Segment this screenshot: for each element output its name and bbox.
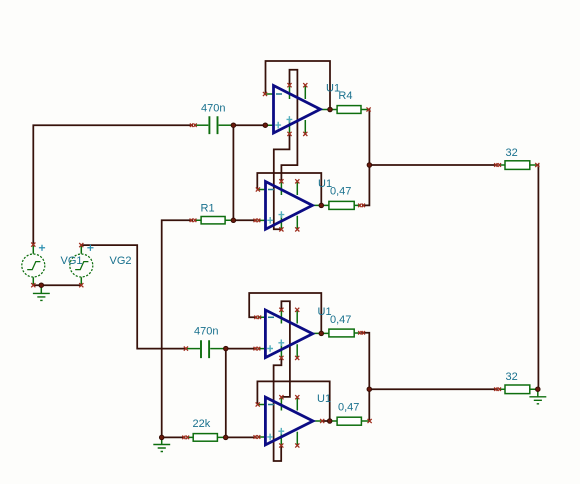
- wire C2 right to opamp3 +in: [226, 348, 257, 350]
- wire feedback opamp3: [249, 293, 321, 333]
- wire node A down to R0,47b: [362, 165, 369, 205]
- svg-text:0,47: 0,47: [338, 402, 359, 414]
- op-amp U1 c minus plus: [267, 317, 284, 352]
- pin mark 0,47b right: [358, 204, 365, 208]
- plus sign VG1: [39, 245, 45, 251]
- junction node C2: [224, 346, 229, 351]
- svg-text:470n: 470n: [201, 103, 225, 115]
- op-amp U1 d power stubs: [281, 397, 297, 445]
- pin mark R1 left: [190, 219, 197, 223]
- wire node C1 to opamp1 +in: [233, 124, 265, 126]
- pin mark R4 right: [367, 107, 371, 111]
- junction opamp2 out: [319, 203, 324, 208]
- junction 22k left: [159, 435, 164, 440]
- pin mark opamp4 -in: [256, 402, 260, 406]
- wire node B to R32b: [369, 388, 498, 390]
- op-amp U1 b leads: [257, 190, 321, 221]
- resistor 32 a: [499, 161, 537, 170]
- svg-text:U1: U1: [317, 393, 331, 405]
- pin mark 32b left: [494, 387, 501, 391]
- junction opamp1 +in: [263, 123, 268, 128]
- ground VG1: [33, 285, 50, 300]
- junction VG1 ground: [39, 283, 44, 288]
- pin mark 32a right: [535, 163, 539, 167]
- pin mark VG2 top: [79, 243, 83, 247]
- svg-text:VG2: VG2: [110, 255, 132, 267]
- op-amp U1 d triangle: [265, 397, 313, 445]
- pin mark 32a left: [494, 163, 501, 167]
- pin mark 0,47d right: [368, 419, 372, 423]
- op-amp U1 a minus plus: [275, 94, 292, 128]
- wire node C1 down to R1: [232, 125, 234, 220]
- junction 22k right: [223, 435, 228, 440]
- op-amp U1 d minus plus: [267, 405, 284, 441]
- wire VG1 bottom to VG2 bottom: [33, 284, 81, 286]
- svg-text:470n: 470n: [194, 326, 218, 338]
- svg-text:0,47: 0,47: [330, 186, 351, 198]
- junction node A: [367, 163, 372, 168]
- capacitor C2 470n: [187, 340, 225, 358]
- wire 22k right to opamp4 +in: [226, 436, 257, 438]
- wire VG1 top to C1: [33, 125, 193, 244]
- junction node C1: [231, 123, 236, 128]
- wire R4 right down to node A: [368, 110, 371, 166]
- svg-text:R4: R4: [338, 90, 352, 102]
- pin mark C1 left: [190, 123, 197, 127]
- svg-text:VG1: VG1: [61, 255, 83, 267]
- resistor 0,47 c: [322, 329, 360, 337]
- resistor 32 b: [499, 385, 537, 394]
- wire C2 node down to 22k node: [225, 349, 227, 438]
- source VG1: [22, 245, 45, 284]
- pin mark C2 left: [184, 347, 188, 351]
- pin mark opamp1 -in: [263, 92, 267, 96]
- junction opamp4 out: [327, 419, 332, 424]
- pin mark VG1 bottom: [31, 283, 35, 287]
- pin mark opamp3 -in: [254, 316, 261, 320]
- op-amp U1 b triangle: [266, 182, 313, 230]
- op-amp U1 a power stubs: [290, 86, 306, 134]
- resistor R1: [194, 217, 232, 224]
- pin mark 22k left: [182, 436, 189, 440]
- op-amp U1 b minus plus: [267, 190, 284, 224]
- pin mark opamp3 +in wire: [254, 347, 261, 351]
- wire feedback opamp1: [266, 61, 331, 110]
- pin mark opamp4 out: [320, 419, 324, 423]
- op-amp U1 a triangle: [274, 86, 321, 134]
- wire R32a right down to R32b: [537, 165, 540, 389]
- wire power U1a to U1b top: [281, 70, 297, 182]
- op-amp U1 a leads: [265, 94, 330, 125]
- wire R0,47c right to node B: [361, 333, 369, 389]
- svg-text:22k: 22k: [193, 418, 211, 430]
- pin mark opamp1 power pins: [287, 83, 291, 87]
- resistor 22k: [186, 434, 224, 442]
- op-amp U1 d leads: [257, 405, 322, 438]
- op-amp U1 c triangle: [265, 310, 312, 358]
- junction opamp3 out: [319, 331, 324, 336]
- wire opamp4 output extension: [322, 420, 330, 422]
- wire node B down to R0,47d: [368, 389, 370, 421]
- pin mark opamp4 +in wire: [254, 435, 261, 439]
- pin mark opamp2 -in: [256, 187, 260, 191]
- pin mark opamp2 power pins: [279, 179, 283, 183]
- wire VG2 top to C2: [81, 245, 186, 349]
- wire feedback opamp4: [257, 381, 329, 421]
- junction opamp1 out: [328, 107, 333, 112]
- wire R1 right to opamp2 +in: [233, 219, 256, 221]
- svg-text:32: 32: [506, 371, 518, 383]
- wire feedback opamp2: [257, 173, 321, 205]
- pin mark opamp3 power pins: [279, 308, 283, 312]
- pin mark opamp2 +in wire: [254, 219, 261, 223]
- svg-text:32: 32: [506, 147, 518, 159]
- wire power U1a to U1b bottom: [274, 134, 290, 230]
- svg-text:0,47: 0,47: [330, 314, 351, 326]
- pin mark 0,47c right: [358, 331, 365, 335]
- svg-text:R1: R1: [201, 203, 215, 215]
- op-amp U1 c power stubs: [281, 310, 297, 358]
- resistor R4: [331, 106, 368, 114]
- pin mark VG1 top: [31, 243, 35, 247]
- ground 22k: [153, 437, 170, 451]
- source VG2: [70, 245, 93, 284]
- wire 22k left node: [162, 436, 186, 438]
- junction R1 right: [231, 218, 236, 223]
- wire R1 left down to 22k node: [162, 220, 193, 437]
- pin mark VG2 bottom: [79, 283, 83, 287]
- resistor 0,47 b: [322, 201, 360, 209]
- junction 32b right: [536, 387, 541, 392]
- resistor 0,47 d: [331, 417, 369, 425]
- wire node A to R32a: [369, 164, 497, 166]
- ground 32b: [529, 389, 546, 404]
- pin mark opamp4 power pins: [279, 395, 283, 399]
- wire power U1c to U1d bottom: [274, 358, 282, 461]
- wire power U1c to U1d top: [281, 301, 290, 397]
- junction node B: [367, 387, 372, 392]
- capacitor C1 470n: [194, 116, 232, 134]
- op-amp U1 c leads: [257, 317, 321, 348]
- op-amp U1 b power stubs: [281, 182, 297, 230]
- plus sign VG2: [87, 245, 93, 251]
